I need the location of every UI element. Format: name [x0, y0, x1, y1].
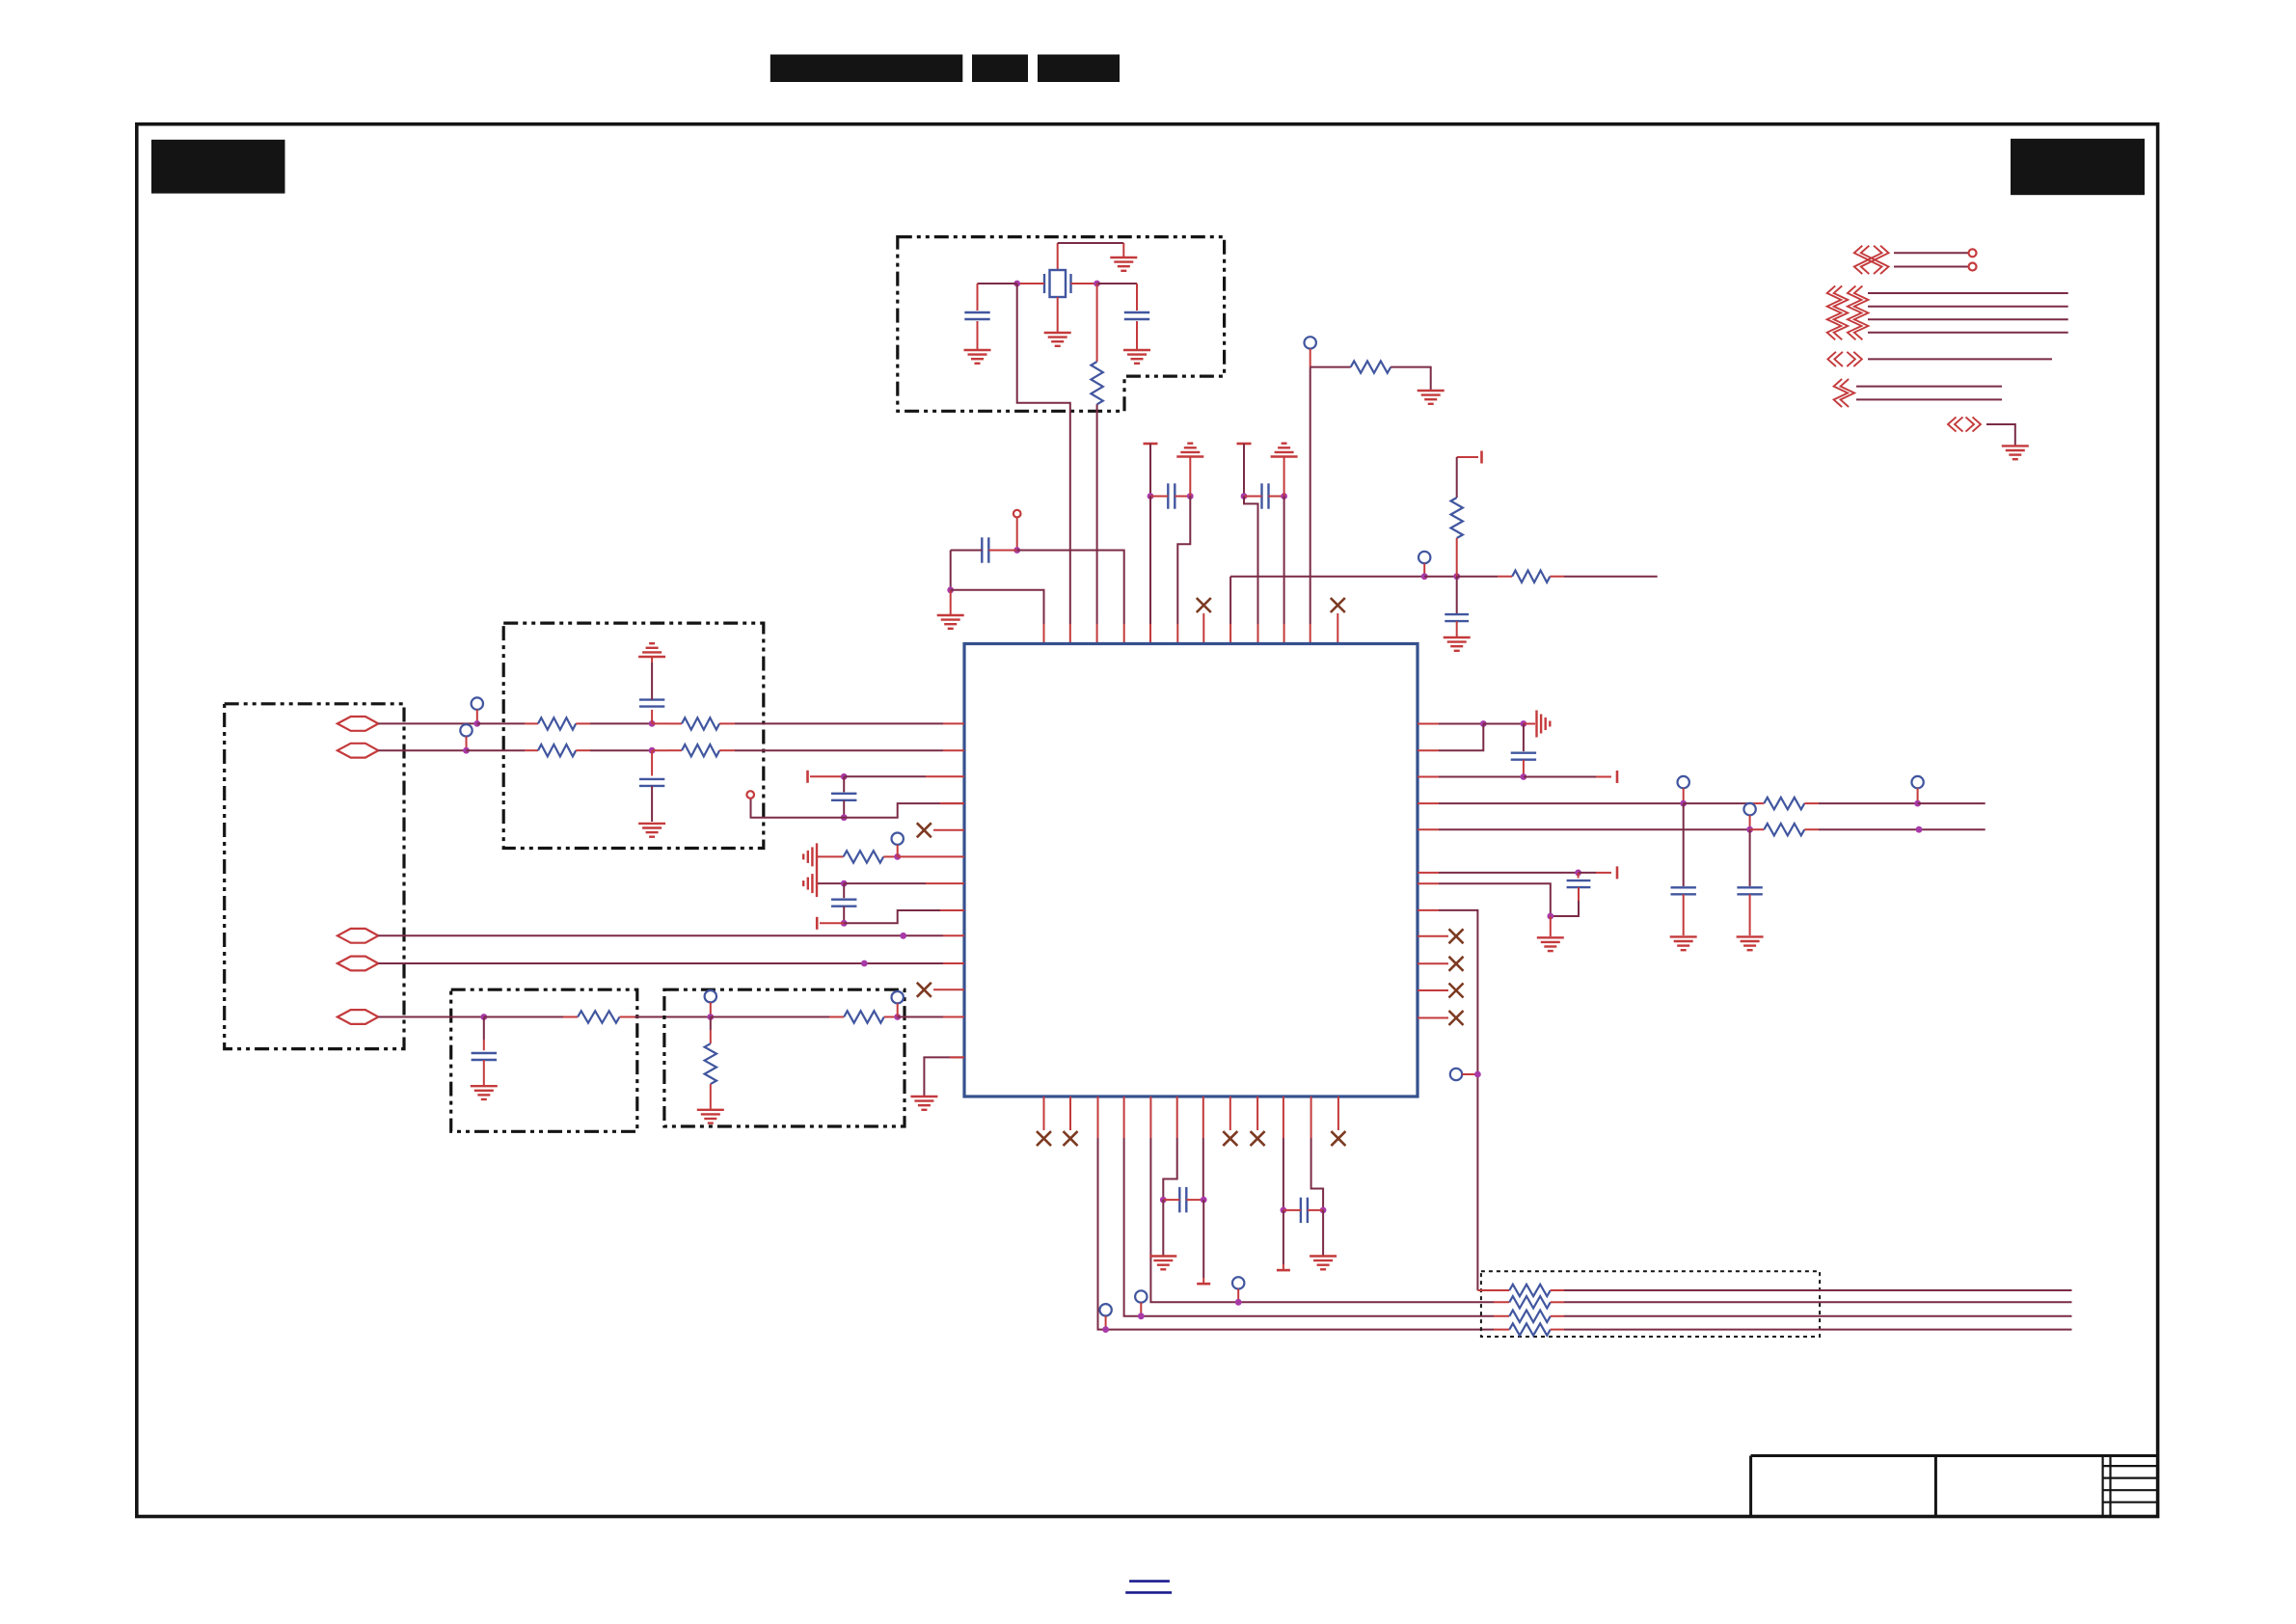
ground G20	[1537, 937, 1564, 951]
node N8	[947, 586, 954, 593]
wire P6 stub	[710, 1002, 712, 1016]
no-connect X7	[1037, 1131, 1051, 1146]
wire line5 b	[484, 1016, 578, 1018]
wire net B2	[1868, 306, 2068, 308]
node N16	[861, 961, 868, 967]
node N18	[707, 1014, 714, 1020]
no-connect X8	[1064, 1131, 1078, 1146]
resistor R19	[1509, 1323, 1551, 1335]
capacitor C11	[831, 900, 856, 907]
open terminal P9	[892, 833, 904, 845]
no-connect stub pin1026	[933, 988, 964, 990]
wire netB b	[1750, 828, 1765, 830]
wire net H to IC pin	[1229, 577, 1231, 644]
wire C8 to ground	[651, 786, 653, 822]
oscillator block outline	[898, 237, 1225, 412]
resistor R8	[538, 744, 576, 756]
resistor R4	[1451, 498, 1463, 538]
resistor R5	[1512, 571, 1550, 582]
no-connect stub pinB1	[1043, 1096, 1045, 1130]
node N33	[1547, 913, 1553, 920]
node N21	[841, 814, 848, 821]
power tap T1	[1144, 443, 1158, 446]
connector pin 2	[338, 744, 378, 758]
ground G8	[1418, 391, 1445, 404]
node N6	[1281, 493, 1287, 500]
wire netA a	[1418, 802, 1684, 804]
wire line1 d	[652, 722, 682, 724]
wire P3 stub	[1423, 563, 1425, 577]
node N4	[1187, 493, 1194, 500]
wire R4 to N10	[1456, 538, 1458, 577]
node N32	[1575, 870, 1581, 877]
no-connect X11	[1331, 1131, 1345, 1146]
wire C13 to ground	[1683, 894, 1685, 935]
redacted label top-right	[2011, 139, 2145, 195]
wire pin1096 to ground	[924, 1057, 964, 1096]
open terminal P5	[460, 724, 472, 736]
redacted title bar 2	[972, 55, 1028, 83]
wire N5 jog to IC pin	[1244, 497, 1258, 644]
wire T5 to N24	[820, 922, 844, 924]
wire netB c	[1804, 828, 1985, 830]
input filter block outline	[503, 623, 764, 848]
no-connect X3	[1449, 929, 1464, 943]
no-connect X5	[1449, 984, 1464, 998]
resistor R12	[844, 1011, 884, 1022]
wire N3 to IC pin	[1149, 497, 1151, 644]
resistor R7	[682, 717, 719, 729]
ground G13	[697, 1110, 724, 1123]
off-page connector C chevrons	[1827, 352, 1861, 366]
wire XR to C2	[1097, 283, 1137, 284]
wire net B4	[1868, 332, 2068, 334]
resistor R16	[1509, 1285, 1551, 1296]
open terminal P16	[1232, 1277, 1244, 1288]
title block table	[1751, 1456, 2158, 1517]
wire P4 stub	[476, 710, 478, 724]
wire N20 to IC	[844, 775, 964, 777]
connector pin 3	[338, 929, 378, 943]
resistor R18	[1509, 1311, 1551, 1322]
open terminal circle A1	[1969, 249, 1977, 257]
wire P16 stub	[1237, 1289, 1239, 1303]
wire N21 to P8	[751, 798, 845, 818]
wire N10 to C6	[1456, 577, 1458, 614]
no-connect stub pin861	[933, 829, 964, 831]
wire R11 lead	[710, 1017, 712, 1044]
wire C15 jog to N33	[1551, 887, 1579, 916]
node N3	[1148, 493, 1154, 500]
wire C2 top lead	[1136, 284, 1138, 311]
wire C15 top lead	[1578, 873, 1580, 879]
crystal X1	[1017, 270, 1097, 297]
wire bottom line3	[1551, 1315, 2072, 1317]
no-connect X4	[1449, 957, 1464, 971]
wire C12 bottom lead	[1523, 760, 1525, 777]
wire pinB11 jog	[1311, 1096, 1324, 1210]
node N11	[473, 720, 480, 727]
terminal T8	[1197, 1283, 1210, 1286]
wire N27 to T6	[1524, 776, 1611, 778]
no-connect stub pinB8	[1229, 1096, 1231, 1130]
wire N9-N10	[1424, 576, 1457, 578]
wire R2 to ground	[1391, 367, 1431, 390]
wire line1 c	[576, 722, 652, 724]
wire pin944R runner	[1418, 910, 1477, 1290]
wire pinB5 runner	[1150, 1096, 1509, 1302]
node N34	[1474, 1071, 1481, 1078]
wire line1 e	[719, 722, 964, 724]
wire crystal bottom	[1057, 297, 1059, 332]
wire net B3	[1868, 318, 2068, 320]
ground G10 (up)	[638, 643, 665, 657]
connector pin 5	[338, 1010, 378, 1024]
redacted title bar 3	[1038, 55, 1120, 83]
node N24	[841, 920, 848, 927]
wire T2 to node	[1243, 444, 1245, 497]
open terminal P11	[1911, 776, 1923, 788]
resistor R6	[538, 717, 576, 729]
node N14	[649, 747, 656, 754]
ground GE	[2002, 446, 2029, 459]
wire R1 to IC pin	[1096, 404, 1098, 643]
no-connect stub top1	[1202, 613, 1204, 644]
wire R13 to N22	[883, 855, 898, 857]
no-connect stub right 1	[1418, 935, 1448, 937]
wire netA b	[1684, 802, 1765, 804]
node N37	[1235, 1299, 1242, 1306]
capacitor C4	[1244, 483, 1284, 508]
wire C5 to ground node	[950, 551, 952, 590]
node N7	[1013, 547, 1020, 554]
wire XL to C1	[978, 283, 1017, 284]
wire bottom line4	[1551, 1329, 2072, 1331]
wire C6 to ground	[1456, 621, 1458, 636]
wire jog pin778R	[1418, 724, 1483, 751]
node N12	[649, 720, 656, 727]
resistor R15	[1764, 824, 1804, 835]
capacitor C8	[639, 779, 664, 786]
wire N38 to ground	[1162, 1200, 1164, 1255]
wire pin805R	[1418, 776, 1524, 778]
ground G17 (right)	[1537, 711, 1551, 738]
power tap T2	[1237, 443, 1252, 446]
open terminal P3	[1418, 552, 1430, 563]
termination block outline	[664, 989, 905, 1126]
wire P12 stub	[1749, 815, 1751, 829]
no-connect stub pinB9	[1256, 1096, 1258, 1130]
wire XL down jog	[1017, 284, 1070, 644]
wire C12 top lead	[1523, 724, 1525, 752]
capacitor C15	[1567, 880, 1591, 887]
resistor R11	[705, 1043, 716, 1084]
no-connect stub right 4	[1418, 1017, 1448, 1019]
off-page connector E chevrons	[1948, 417, 1981, 431]
node N10	[1453, 573, 1460, 580]
redacted title bar 1	[770, 55, 963, 83]
wire N39 to T8	[1202, 1200, 1204, 1284]
wire netA end	[1918, 802, 1985, 804]
ground G16	[910, 1096, 937, 1110]
wire pin750R	[1418, 723, 1483, 725]
wire line5 a	[378, 1016, 484, 1018]
wire C1 top lead	[977, 284, 979, 311]
wire net D2	[1856, 398, 2002, 400]
capacitor C13	[1671, 887, 1696, 894]
resistor R17	[1509, 1296, 1551, 1308]
ground G6 (up)	[1271, 444, 1298, 457]
wire N8 to ground	[950, 590, 952, 614]
wire pin905R	[1418, 872, 1579, 874]
ground G2	[1044, 333, 1071, 346]
wire P2 to IC pin	[1310, 367, 1311, 644]
wire N4 to ground-up G5	[1189, 458, 1191, 497]
no-connect stub right 3	[1418, 989, 1448, 991]
node N23	[841, 880, 848, 887]
node N25	[1480, 720, 1487, 727]
wire C8 lead	[651, 750, 653, 775]
ground G18	[1670, 936, 1697, 950]
series resistor block outline	[1481, 1271, 1820, 1337]
wire N6 to IC pin	[1283, 497, 1285, 644]
capacitor C12	[1511, 753, 1536, 760]
node N5	[1241, 493, 1248, 500]
wire T1 to node	[1149, 444, 1151, 497]
wire N8 to IC pin	[951, 590, 1044, 644]
wire C14 top lead	[1749, 829, 1751, 886]
node XL	[1013, 281, 1020, 287]
wire net A1	[1894, 252, 1968, 254]
page border frame	[137, 124, 2158, 1517]
node N20	[841, 773, 848, 780]
wire R11 to ground	[710, 1084, 712, 1109]
wire T3 to R4	[1457, 457, 1478, 498]
node N31	[1916, 826, 1923, 833]
resistor R1	[1091, 362, 1102, 404]
node N35	[1102, 1326, 1109, 1333]
wire line1 b	[477, 722, 538, 724]
node N28	[1680, 800, 1687, 807]
wire C9 lead	[483, 1017, 485, 1051]
capacitor C5	[951, 537, 1017, 562]
no-connect X13	[1331, 598, 1345, 612]
ground G1	[1110, 257, 1137, 271]
wire N25-N26	[1483, 723, 1524, 725]
capacitor C3	[1150, 483, 1190, 508]
open terminal P7	[892, 991, 904, 1003]
no-connect stub pinB2	[1069, 1096, 1071, 1130]
node N30	[1746, 826, 1753, 833]
node N9	[1421, 573, 1428, 580]
power tap T3	[1480, 451, 1483, 464]
capacitor C9	[472, 1053, 497, 1060]
open terminal P13	[1450, 1069, 1462, 1080]
wire N32 to T7	[1579, 872, 1611, 874]
wire line5 c	[620, 1016, 711, 1018]
node N19	[894, 1014, 901, 1020]
wire XR to R1	[1096, 284, 1098, 362]
capacitor C1	[964, 312, 989, 319]
connector block outline	[225, 704, 404, 1049]
wire P9 stub	[897, 845, 899, 857]
wire C10 bottom lead	[843, 800, 845, 818]
ground G5 (up)	[1176, 444, 1203, 457]
node N39	[1201, 1197, 1207, 1204]
wire P7 stub	[897, 1003, 899, 1016]
wire T4 to N20	[810, 775, 844, 777]
wire C9 to ground	[483, 1060, 485, 1085]
no-connect X6	[1449, 1011, 1464, 1025]
open terminal P1	[1013, 510, 1021, 518]
wire P2 stub	[1310, 349, 1311, 367]
resistor R2	[1351, 361, 1391, 372]
wire bottom line2	[1551, 1301, 2072, 1303]
no-connect X1	[917, 823, 932, 837]
no-connect stub top2	[1337, 613, 1338, 644]
wire P5 stub	[466, 737, 468, 751]
wire pin916R	[1418, 883, 1551, 916]
ground G11	[638, 824, 665, 837]
wire line2 e	[719, 749, 964, 751]
node N15	[900, 933, 906, 939]
no-connect X12	[1197, 598, 1211, 612]
wire pinB10	[1283, 1096, 1284, 1210]
wire line2 c	[576, 749, 652, 751]
wire P14 stub	[1105, 1316, 1107, 1330]
wire C7 to ground-up	[651, 658, 653, 700]
wire line5 f	[898, 1016, 964, 1018]
capacitor C2	[1124, 312, 1149, 319]
ground G14 (left)	[803, 843, 817, 870]
open terminal P4	[472, 697, 483, 709]
open terminal P15	[1135, 1290, 1147, 1302]
wire net B1	[1868, 292, 2068, 294]
wire jog pin833	[844, 803, 964, 818]
wire C7 lead	[651, 710, 653, 723]
open terminal P10	[1678, 776, 1689, 788]
wire N22 to IC	[898, 855, 964, 857]
wire P15 stub	[1140, 1303, 1142, 1316]
wire line5 d	[711, 1016, 844, 1018]
connector pin 1	[338, 717, 378, 731]
wire C14 to ground	[1749, 894, 1751, 935]
resistor R13	[844, 851, 884, 862]
wire N23 to IC	[844, 882, 964, 884]
wire net H right	[1457, 576, 1513, 578]
node N22	[894, 853, 901, 860]
ground G4	[1123, 350, 1150, 364]
wire netA c	[1804, 802, 1917, 804]
wire G14 to R13	[818, 855, 844, 857]
wire N40 to T9	[1283, 1210, 1284, 1270]
capacitor C6	[1445, 614, 1469, 621]
resistor R14	[1764, 798, 1804, 809]
wire N26 to ground-right	[1524, 723, 1535, 725]
wire line2 d	[652, 749, 682, 751]
no-connect X10	[1251, 1131, 1265, 1146]
lowpass block outline	[451, 989, 637, 1131]
wire line5 e	[884, 1016, 898, 1018]
open terminal P8	[746, 791, 754, 798]
wire line2 a	[378, 749, 466, 751]
terminal T7	[1616, 866, 1619, 879]
wire net C	[1868, 358, 2052, 360]
wire P13 stub	[1462, 1073, 1477, 1075]
off-page connector group B chevrons	[1827, 285, 1869, 339]
wire pinB6 jog	[1163, 1096, 1176, 1200]
wire C1 to ground	[977, 321, 979, 349]
wire bottom line1	[1551, 1289, 2072, 1291]
terminal T4	[806, 771, 809, 783]
wire net H left	[1230, 576, 1424, 578]
wire N7 to IC pin	[1017, 551, 1124, 644]
ground G19	[1737, 936, 1764, 950]
wire pinB7	[1202, 1096, 1204, 1200]
wire line3	[378, 934, 964, 936]
resistor R9	[682, 744, 719, 756]
ground G3	[964, 350, 991, 364]
wire C2 to ground	[1136, 321, 1138, 349]
ground G21	[1149, 1257, 1176, 1270]
open terminal circle A2	[1969, 263, 1977, 271]
wire netB a	[1418, 828, 1750, 830]
wire N33 to ground	[1550, 916, 1552, 936]
wire net E	[1986, 424, 2015, 446]
off-page connector D chevrons	[1834, 379, 1855, 407]
ground G12	[471, 1086, 498, 1099]
wire crystal top	[1058, 243, 1124, 270]
ground G22	[1310, 1257, 1337, 1270]
wire bottom line1 lead	[1477, 1289, 1509, 1291]
wire N4 jog to IC pin	[1177, 497, 1190, 644]
wire net D1	[1856, 386, 2002, 388]
capacitor C10	[831, 794, 856, 800]
wire line1 a	[378, 722, 477, 724]
wire jog pin944	[844, 910, 964, 923]
node N13	[463, 747, 470, 754]
connector pin 4	[338, 957, 378, 971]
off-page connector pair A chevrons	[1854, 246, 1889, 274]
capacitor C14	[1737, 887, 1762, 894]
wire N41 to ground	[1322, 1210, 1324, 1256]
wire N6 to ground-up G6	[1283, 458, 1285, 497]
ground G7	[937, 615, 964, 629]
wire net A2	[1894, 266, 1968, 268]
revision mark (blue)	[1125, 1582, 1172, 1593]
wire P10 stub	[1683, 788, 1685, 803]
terminal T5	[816, 917, 819, 930]
wire P11 stub	[1917, 788, 1919, 803]
wire P2 to R2	[1310, 366, 1351, 368]
wire net H end	[1550, 576, 1657, 578]
node N26	[1521, 720, 1527, 727]
IC U1	[964, 644, 1418, 1097]
capacitor C7	[639, 700, 664, 707]
node N41	[1320, 1207, 1327, 1214]
redacted label top-left	[151, 140, 285, 194]
capacitor C17	[1283, 1198, 1323, 1223]
resistor R10	[578, 1011, 619, 1022]
wire pinB4 runner	[1124, 1096, 1510, 1316]
node N27	[1521, 773, 1527, 780]
wire P1 stub	[1016, 517, 1018, 550]
wire C10 top lead	[843, 776, 845, 792]
wire line4	[378, 962, 964, 964]
open terminal P2	[1305, 337, 1316, 348]
node N40	[1281, 1207, 1287, 1214]
no-connect X9	[1223, 1131, 1237, 1146]
